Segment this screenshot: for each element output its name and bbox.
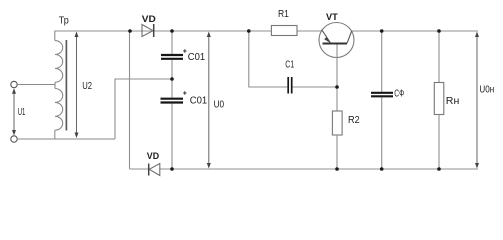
junction dots top rail <box>128 29 132 33</box>
transformer core <box>65 40 67 131</box>
junction dot mid node <box>170 77 174 81</box>
capacitor C01 top <box>161 31 205 79</box>
svg-text:Rн: Rн <box>446 95 460 107</box>
U1 measurement arrow <box>12 88 25 135</box>
diode VD top <box>142 24 154 37</box>
wire C1 branch from top rail <box>249 31 287 87</box>
wire bottom rail left of diode <box>130 168 149 170</box>
wire top rail left segment <box>55 30 322 32</box>
svg-text:VT: VT <box>326 12 338 22</box>
wire bottom rail right of diode <box>160 168 478 170</box>
svg-text:VD: VD <box>147 151 159 161</box>
svg-text:U1: U1 <box>18 106 26 118</box>
diode VD bottom <box>149 164 160 176</box>
wire secondary bottom riser to mid node <box>115 79 172 139</box>
U0 measurement arrow <box>207 32 224 169</box>
resistor R1 <box>271 8 297 36</box>
input terminal top <box>11 81 17 87</box>
junction dot base node <box>335 85 339 89</box>
resistor RH (load) <box>434 31 459 169</box>
svg-text:U0н: U0н <box>479 84 494 96</box>
svg-text:C01: C01 <box>188 51 206 63</box>
U0H measurement arrow <box>475 32 494 169</box>
capacitor C1 <box>285 59 337 94</box>
resistor R2 <box>332 87 359 169</box>
svg-text:U0: U0 <box>214 99 225 111</box>
transformer Tp winding (lower arc group) <box>55 89 63 131</box>
svg-text:СФ: СФ <box>394 88 404 100</box>
U2 measurement arrow <box>75 32 93 139</box>
svg-text:C1: C1 <box>285 59 294 71</box>
transistor VT <box>319 12 354 87</box>
wire top rail right segment <box>352 30 478 32</box>
wire top terminal to winding tap <box>17 84 55 86</box>
svg-text:R2: R2 <box>348 114 360 126</box>
svg-text:C01: C01 <box>190 95 208 107</box>
wire winding top lead <box>54 31 56 41</box>
svg-text:U2: U2 <box>82 80 92 92</box>
capacitor C01 bottom <box>161 79 208 169</box>
input terminal bottom <box>11 136 17 142</box>
wire winding tap chord segment <box>54 82 56 88</box>
wire left drop x=129.5 (node X) <box>129 31 131 169</box>
svg-text:Тр: Тр <box>59 14 69 26</box>
capacitor CF <box>371 31 404 169</box>
svg-text:VD: VD <box>142 14 156 24</box>
wire bottom terminal to corner (secondary bottom) <box>17 138 115 140</box>
junction dots bottom rail <box>170 167 174 171</box>
transformer Tp primary winding (upper arc group) <box>55 41 63 83</box>
wire winding bottom lead <box>54 130 56 139</box>
svg-text:R1: R1 <box>278 8 289 20</box>
